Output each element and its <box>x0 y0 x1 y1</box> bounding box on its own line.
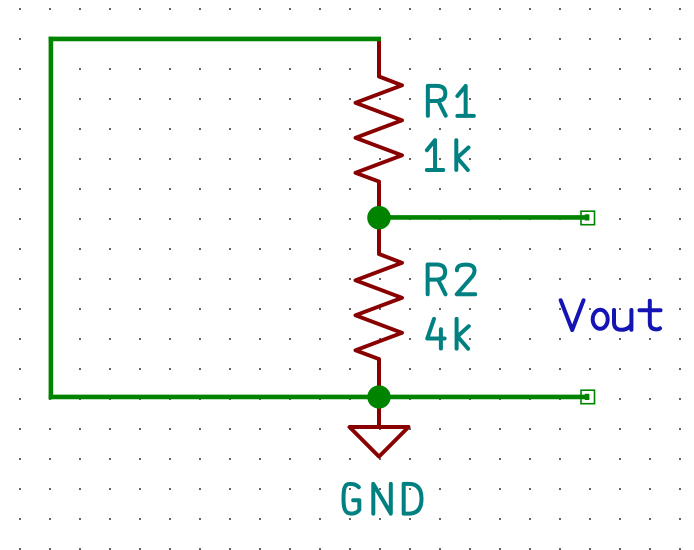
ground <box>350 397 409 457</box>
label R1 <box>428 86 474 116</box>
resistor R2 <box>356 218 403 398</box>
resistor R1 <box>356 39 403 218</box>
unconnected pin square top <box>581 211 595 225</box>
label Vout <box>561 300 661 330</box>
wire left segment <box>49 37 54 400</box>
label GND <box>344 484 422 514</box>
value 1k <box>427 140 469 170</box>
value 4k <box>427 319 469 349</box>
junction node Vout tap <box>367 206 391 230</box>
wire top segment <box>49 37 381 42</box>
unconnected pin square bottom <box>581 390 595 404</box>
wire bottom segment <box>49 395 590 400</box>
junction node bottom <box>367 385 390 408</box>
label R2 <box>428 265 476 295</box>
wire Vout tap segment <box>379 215 589 220</box>
